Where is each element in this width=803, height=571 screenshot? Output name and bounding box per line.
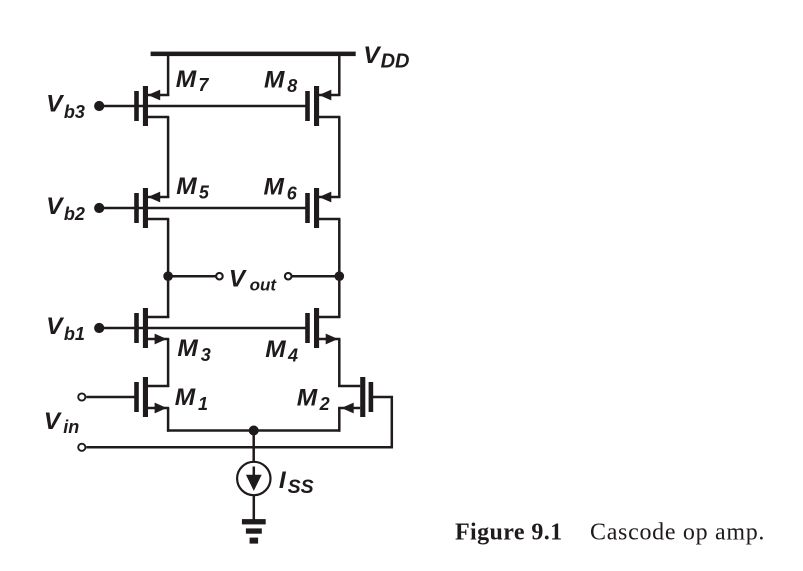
svg-text:M: M xyxy=(264,67,285,94)
svg-text:V: V xyxy=(44,408,63,435)
svg-text:V: V xyxy=(46,193,65,220)
svg-text:b3: b3 xyxy=(64,102,85,122)
svg-text:b2: b2 xyxy=(64,204,85,224)
svg-text:out: out xyxy=(250,276,278,295)
svg-text:V: V xyxy=(229,266,248,293)
svg-text:M: M xyxy=(265,336,286,363)
svg-text:7: 7 xyxy=(198,75,209,95)
svg-text:I: I xyxy=(279,467,287,494)
svg-text:1: 1 xyxy=(198,394,208,414)
svg-text:b1: b1 xyxy=(64,324,85,344)
svg-text:SS: SS xyxy=(288,476,314,498)
svg-text:2: 2 xyxy=(319,394,330,414)
svg-text:M: M xyxy=(264,174,285,201)
svg-text:6: 6 xyxy=(287,183,298,203)
svg-text:4: 4 xyxy=(287,346,298,366)
svg-text:M: M xyxy=(176,66,197,93)
svg-text:V: V xyxy=(363,42,382,69)
svg-text:3: 3 xyxy=(201,345,211,365)
svg-text:M: M xyxy=(176,173,197,200)
svg-text:M: M xyxy=(297,384,318,411)
svg-text:V: V xyxy=(46,313,65,340)
svg-text:M: M xyxy=(175,384,196,411)
svg-text:5: 5 xyxy=(199,183,210,203)
svg-text:M: M xyxy=(177,335,198,362)
svg-text:in: in xyxy=(63,417,79,437)
svg-text:V: V xyxy=(46,91,65,118)
svg-text:Figure 9.1: Figure 9.1 xyxy=(455,520,563,546)
svg-text:DD: DD xyxy=(381,51,410,73)
svg-text:Cascode op amp.: Cascode op amp. xyxy=(590,520,765,546)
svg-text:8: 8 xyxy=(287,76,297,96)
